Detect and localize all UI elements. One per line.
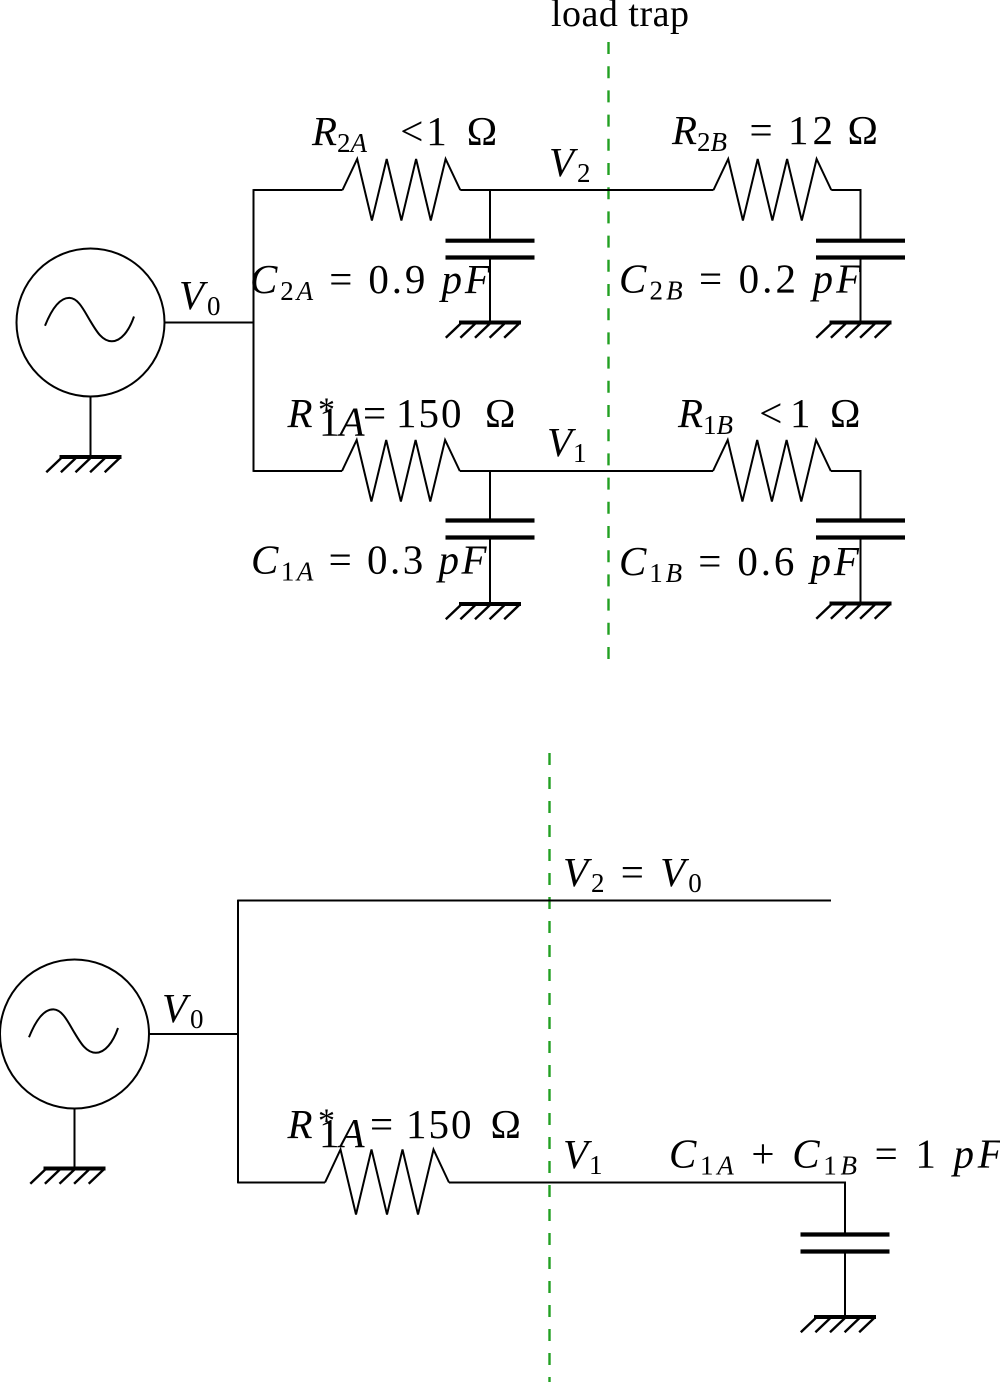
- svg-text:V2 = V0: V2 = V0: [563, 849, 705, 898]
- wire: R2B to capacitor C2B: [831, 190, 860, 239]
- capacitor C2B: [816, 241, 905, 323]
- svg-text:V1: V1: [547, 419, 588, 468]
- wire: branch vertical (top circuit): [253, 189, 255, 472]
- capacitor C1B: [816, 521, 905, 604]
- ground (capacitor C1A): [446, 604, 521, 619]
- resistor R2B: [714, 159, 832, 221]
- svg-text:C2B = 0.2 pF: C2B = 0.2 pF: [619, 256, 864, 306]
- wire: source output to branch junction (bottom circuit): [149, 1033, 238, 1035]
- ground (capacitor C2B): [816, 323, 891, 338]
- svg-text:R: R: [287, 390, 313, 436]
- svg-text:R2A<1Ω: R2A<1Ω: [311, 108, 498, 158]
- svg-text:C2A = 0.9 pF: C2A = 0.9 pF: [250, 256, 493, 306]
- svg-text:C1B = 0.6 pF: C1B = 0.6 pF: [619, 538, 862, 588]
- capacitor C1A: [446, 521, 535, 604]
- svg-text:=150Ω: =150Ω: [370, 1101, 522, 1147]
- capacitor C1A + C1B: [801, 1235, 890, 1318]
- svg-text:V1: V1: [563, 1131, 604, 1180]
- svg-text:V0: V0: [179, 272, 224, 321]
- wire: source ground stem (top circuit): [90, 397, 92, 458]
- ground (bottom capacitor): [801, 1317, 876, 1332]
- wire: R1A to R1B through node V1: [460, 470, 713, 472]
- ground (capacitor C1B): [816, 604, 891, 619]
- wire: R2A to R2B through node V2: [460, 189, 713, 191]
- ground (capacitor C2A): [446, 323, 521, 338]
- svg-text:C1A + C1B = 1 pF: C1A + C1B = 1 pF: [669, 1131, 1000, 1181]
- cut line (green dashed, bottom circuit): [548, 753, 550, 1382]
- svg-text:V2: V2: [549, 139, 594, 188]
- wire: node V2 down to capacitor C2A: [489, 190, 491, 239]
- svg-text:R2B=12Ω: R2B=12Ω: [671, 107, 879, 157]
- label R1A value (bottom circuit): [287, 1101, 522, 1156]
- wire: top branch left segment: [254, 189, 343, 191]
- svg-text:C1A = 0.3 pF: C1A = 0.3 pF: [251, 537, 489, 587]
- resistor R1A (bottom circuit): [325, 1150, 449, 1215]
- resistor R1B: [713, 440, 831, 502]
- resistor R1A (top circuit): [342, 440, 460, 502]
- wire: V2 = V0 line (bottom circuit top branch): [238, 900, 831, 902]
- wire: bottom branch left segment (bottom circuit): [238, 1182, 325, 1184]
- svg-text:V0: V0: [162, 985, 207, 1034]
- voltage source V0 (bottom circuit): [0, 960, 149, 1109]
- svg-text:R1B<1Ω: R1B<1Ω: [677, 390, 861, 440]
- load trap cut line (green dashed, top circuit): [607, 42, 609, 670]
- capacitor C2A: [446, 241, 535, 323]
- resistor R2A: [343, 159, 461, 221]
- svg-text:=150Ω: =150Ω: [363, 390, 516, 436]
- voltage source V0 (top circuit): [17, 249, 165, 397]
- svg-text:1A: 1A: [319, 1110, 366, 1156]
- label R1A value (top circuit): [287, 390, 517, 445]
- svg-text:1A: 1A: [319, 399, 366, 445]
- wire: node V1 to capacitor (bottom circuit): [449, 1183, 845, 1233]
- wire: source ground stem (bottom circuit): [74, 1109, 76, 1169]
- ground (top source): [46, 457, 121, 472]
- wire: R1B to capacitor C1B: [831, 471, 861, 519]
- wire: branch vertical (bottom circuit): [237, 900, 239, 1184]
- wire: source output to branch junction: [165, 322, 254, 324]
- svg-text:load trap: load trap: [551, 0, 690, 35]
- svg-text:R: R: [287, 1101, 313, 1147]
- wire: bottom branch left segment (top circuit): [254, 470, 343, 472]
- ground (bottom source): [30, 1169, 105, 1184]
- wire: node V1 down to capacitor C1A: [489, 471, 491, 519]
